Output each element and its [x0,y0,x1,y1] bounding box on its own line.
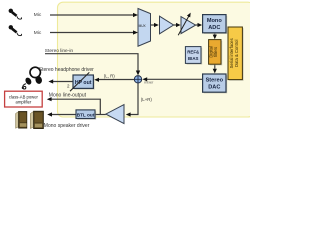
wire Mono ADC to Digital filters [214,33,216,34]
wire mic1 to MUX [50,14,134,16]
chip boundary (codec IC outline) [58,2,254,117]
svg-text:Stereo: Stereo [206,77,224,83]
Digital filters block [209,40,223,66]
svg-text:Data & Control: Data & Control [234,40,239,68]
wire Digital filters to Stereo DAC [214,65,216,69]
wire BTL out to speakers [52,114,76,116]
svg-text:Mono line-output: Mono line-output [49,93,87,99]
wire MUX to amp A1 [151,24,155,26]
programmable gain amp A2 [178,13,195,36]
MUX [138,9,151,47]
svg-text:filters: filters [213,47,218,57]
svg-text:mixer: mixer [144,81,154,85]
svg-text:(L+R): (L+R) [141,97,153,102]
speaker icon 2 [30,111,43,128]
Mono ADC U1 [203,15,228,34]
op-amp A3 (BTL driver) [106,105,124,124]
bus slash 2 on HP out [67,72,89,91]
mic icon 2 [9,25,22,36]
svg-text:BIAS: BIAS [188,56,199,61]
wire PGA to Mono ADC [196,24,198,26]
wire Stereo DAC to mixer [147,78,202,80]
callout class-AB power amplifier [5,91,43,107]
svg-text:MUX: MUX [139,24,147,28]
svg-text:Stereo headphone driver: Stereo headphone driver [39,67,94,73]
wire mono line-output tap [52,99,101,114]
wire stereo line-in to mixer [45,54,138,71]
svg-text:ADC: ADC [208,25,220,31]
wire amp A2 to BTL out [95,114,106,116]
Serial interfaces Data & Control block [228,27,244,81]
Stereo DAC U2 [203,74,228,93]
svg-text:BTL out: BTL out [77,113,95,118]
mic icon 1 [9,9,22,20]
wire HP out to headphones [53,81,73,83]
svg-text:Stereo line-in: Stereo line-in [45,48,74,54]
svg-text:Mono: Mono [207,18,222,24]
svg-text:Mono speaker driver: Mono speaker driver [44,123,90,129]
op-amp A1 [160,16,174,34]
svg-text:DAC: DAC [208,85,220,91]
BTL out block [76,110,96,120]
headphone icon [22,67,43,89]
wire mic2 to MUX [50,32,134,34]
svg-text:HP out: HP out [75,80,92,86]
svg-text:amplifier: amplifier [15,100,31,105]
wire amp A1 to PGA [174,24,177,26]
speaker icon 1 [16,111,27,128]
svg-text:Mic: Mic [34,12,42,18]
wire mixer (L+R) down to BTL amp [130,83,138,114]
mixer summing node [134,76,141,83]
REF & BIAS block [185,47,202,65]
svg-text:Mic: Mic [34,30,42,36]
HP out block [73,75,95,90]
wire mixer to HP out (L,R bus) [99,79,134,81]
svg-text:REF&: REF& [187,49,200,54]
svg-text:(L, R): (L, R) [104,74,116,79]
